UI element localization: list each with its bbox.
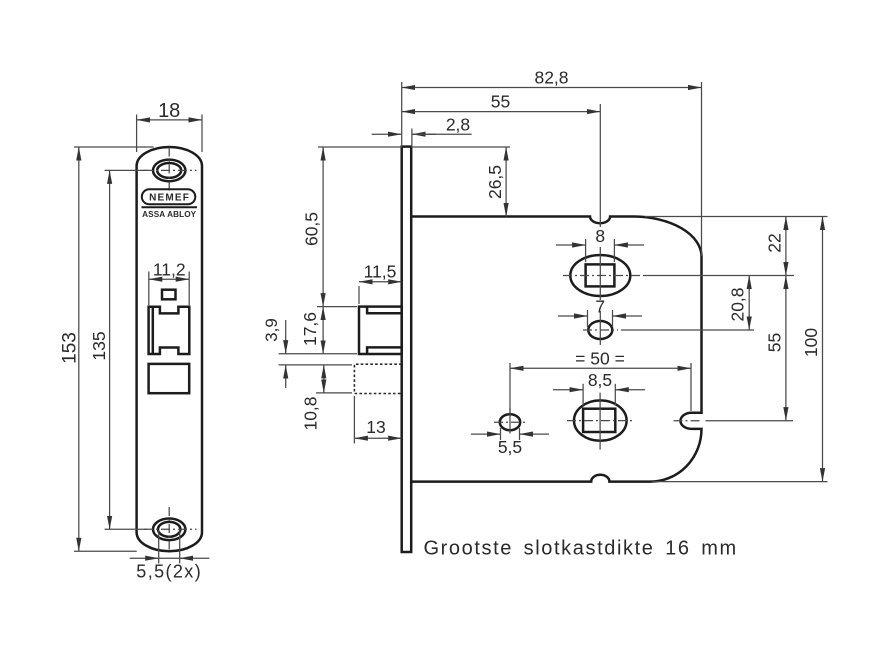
cylinder vertical center line bbox=[599, 393, 601, 450]
deadbolt top extension left bbox=[279, 364, 352, 366]
svg-text:2,8: 2,8 bbox=[446, 115, 470, 135]
latch cutout small square bbox=[162, 290, 176, 300]
dimension 153 extension top bbox=[74, 146, 154, 148]
dimension 55 right line bbox=[785, 276, 787, 421]
follower square bbox=[586, 264, 615, 286]
svg-text:18: 18 bbox=[158, 100, 180, 122]
svg-text:20,8: 20,8 bbox=[728, 287, 748, 321]
NEMEF logo oval bbox=[142, 189, 196, 204]
svg-text:5,5: 5,5 bbox=[498, 437, 522, 457]
svg-text:17,6: 17,6 bbox=[300, 312, 320, 346]
dimension 5,5(2x) extension lines bbox=[158, 530, 160, 564]
dimension 17,6 line bbox=[322, 307, 324, 354]
svg-text:NEMEF: NEMEF bbox=[149, 193, 190, 204]
dimension 8 line with outside arrows bbox=[556, 244, 586, 246]
dimension 10,8 line bbox=[323, 365, 325, 393]
dimension 153 extension bottom bbox=[74, 550, 137, 552]
dimension =50= line bbox=[510, 367, 691, 369]
hole 5,5 horizontal center line bbox=[494, 421, 527, 423]
dimension =50= extension right bbox=[690, 363, 692, 411]
ASSA ABLOY underline bbox=[142, 206, 198, 208]
svg-text:55: 55 bbox=[765, 333, 785, 352]
dimension 18 line bbox=[137, 119, 202, 121]
svg-text:82,8: 82,8 bbox=[534, 68, 568, 88]
deadbolt pocket dashed box bbox=[354, 364, 401, 393]
follower center extension right bbox=[643, 275, 794, 277]
dimension 2,8 line with outside arrows bbox=[372, 133, 402, 135]
svg-text:ASSA ABLOY: ASSA ABLOY bbox=[142, 210, 197, 219]
dimension 2,8 extension right tick bbox=[411, 129, 413, 147]
dimension 13 line bbox=[354, 437, 401, 439]
dimension 8,5 extension lines bbox=[582, 384, 584, 406]
svg-text:Grootste slotkastdikte 16 mm: Grootste slotkastdikte 16 mm bbox=[424, 538, 738, 560]
deadbolt bottom extension left bbox=[316, 392, 352, 394]
dimension 82,8 extension right bbox=[701, 82, 703, 256]
dimension 135 line bbox=[109, 170, 111, 529]
dimension 5,5(2x) line with outside arrows bbox=[130, 557, 159, 559]
faceplate outline bbox=[137, 147, 202, 551]
cylinder center extension right dash bbox=[674, 420, 702, 422]
svg-text:135: 135 bbox=[89, 331, 109, 360]
dimension 135 extension top bbox=[105, 169, 147, 171]
dimension 153 line bbox=[78, 147, 80, 551]
svg-text:7: 7 bbox=[595, 297, 605, 317]
top screw hole outer bbox=[153, 160, 185, 182]
cylinder horizontal center line bbox=[567, 420, 634, 422]
svg-text:10,8: 10,8 bbox=[301, 396, 321, 430]
dimension 82,8 extension left bbox=[401, 82, 403, 147]
dimension 20,8 line bbox=[748, 276, 750, 331]
top extension line at faceplate level y147 bbox=[318, 146, 402, 148]
dimension 5,5 line with outside arrows bbox=[471, 433, 501, 435]
follower vertical center line bbox=[599, 247, 601, 300]
dimension 8 extension lines bbox=[585, 239, 587, 262]
dimension 55 top line bbox=[402, 111, 601, 113]
latch bolt side view outline bbox=[359, 307, 402, 354]
bottom screw hole inner bbox=[158, 522, 180, 537]
svg-text:55: 55 bbox=[491, 92, 510, 112]
dimension 11,5 line bbox=[359, 281, 402, 283]
dimension 11,5 extension left bbox=[358, 286, 360, 304]
svg-text:153: 153 bbox=[60, 332, 81, 364]
bottom screw hole horizontal center line bbox=[144, 528, 197, 530]
svg-text:11,5: 11,5 bbox=[364, 262, 397, 282]
svg-text:13: 13 bbox=[366, 417, 385, 437]
svg-text:100: 100 bbox=[801, 328, 821, 357]
dimension 13 extension left bbox=[353, 396, 355, 444]
follower square spindle hole ellipse bbox=[570, 255, 630, 296]
latch top extension left bbox=[317, 306, 357, 308]
dimension =50= extension left bbox=[509, 363, 511, 413]
faceplate bar side view bbox=[402, 147, 412, 552]
dimension 5,5 extension lines bbox=[500, 428, 502, 440]
dimension 22 line bbox=[785, 217, 787, 276]
cylinder hole ellipse bbox=[574, 400, 627, 440]
dimension 55 top extension right bbox=[599, 104, 601, 227]
square cutout below latch bbox=[149, 364, 190, 393]
svg-text:22: 22 bbox=[765, 233, 785, 252]
dimension 82,8 line bbox=[402, 87, 702, 89]
latch bolt head step top bbox=[367, 307, 402, 314]
dimension 11,2 extension lines bbox=[148, 272, 150, 306]
top screw hole inner bbox=[157, 163, 181, 178]
dimension 3,9 with outside arrows bbox=[285, 320, 287, 354]
latch bolt head step bottom bbox=[367, 347, 402, 354]
bottom screw hole vertical center line bbox=[168, 507, 170, 550]
dimension 60,5 line bbox=[322, 147, 324, 307]
dimension 7 line with outside arrows bbox=[558, 315, 588, 317]
case top extension right bbox=[645, 216, 828, 218]
dimension 11,2 line bbox=[149, 278, 189, 280]
svg-text:3,9: 3,9 bbox=[262, 318, 281, 342]
hole 5,5 vertical center line bbox=[509, 408, 511, 433]
hole 7 ellipse bbox=[588, 321, 612, 339]
latch front inner left line bbox=[152, 307, 155, 354]
follower horizontal center line bbox=[563, 275, 640, 277]
svg-text:11,2: 11,2 bbox=[153, 260, 186, 280]
hole 7 center extension right bbox=[583, 329, 618, 331]
bottom screw hole outer bbox=[153, 519, 185, 541]
top screw hole vertical center line bbox=[168, 148, 170, 194]
dimension 26,5 line bbox=[505, 147, 507, 217]
dimension 18 extension lines bbox=[136, 115, 138, 153]
dimension 100 line bbox=[822, 217, 824, 482]
svg-text:8: 8 bbox=[595, 226, 605, 246]
case bottom extension right bbox=[652, 481, 828, 483]
svg-text:5,5(2x): 5,5(2x) bbox=[136, 562, 202, 582]
svg-text:26,5: 26,5 bbox=[485, 165, 505, 199]
svg-text:= 50 =: = 50 = bbox=[575, 349, 625, 369]
svg-text:60,5: 60,5 bbox=[302, 212, 322, 246]
lock case outline bbox=[411, 217, 701, 482]
dimension 135 extension bottom bbox=[105, 528, 147, 530]
svg-text:8,5: 8,5 bbox=[588, 370, 612, 390]
top screw hole horizontal center line bbox=[144, 169, 197, 171]
hole 7 vertical center line bbox=[599, 311, 601, 345]
dimension 7 extension lines bbox=[587, 310, 589, 327]
dimension 8,5 line with outside arrows bbox=[553, 389, 583, 391]
latch bottom extension left bbox=[279, 353, 357, 355]
cylinder square bbox=[583, 409, 615, 432]
hole 5,5 ellipse bbox=[500, 414, 520, 430]
latch front outline bbox=[149, 307, 190, 354]
